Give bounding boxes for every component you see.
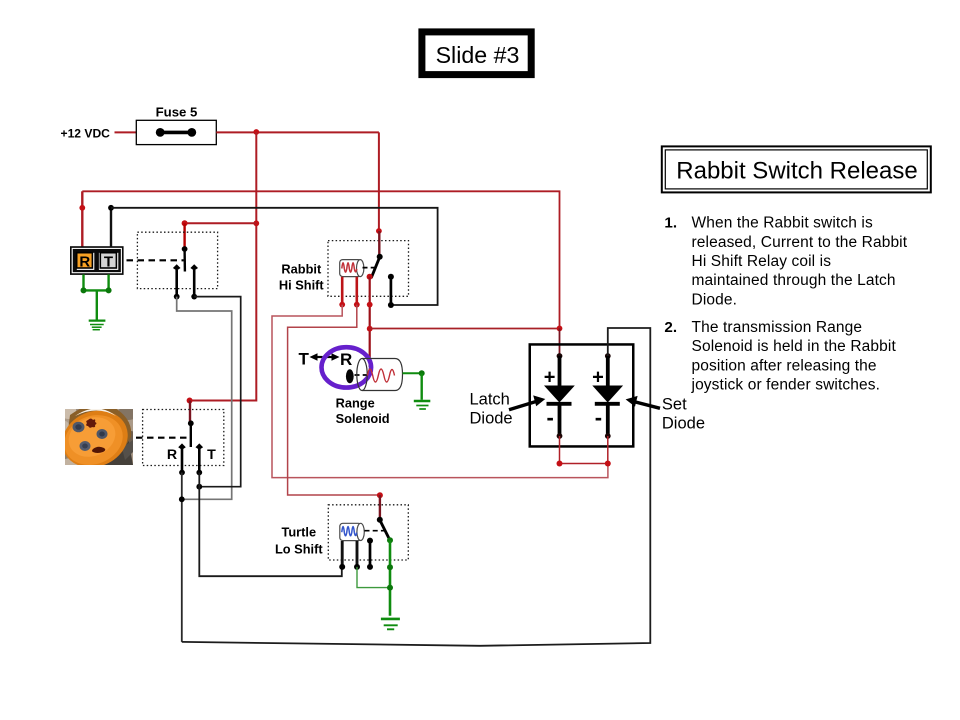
- node junction on fuse line: [253, 129, 259, 135]
- node rabbit feed: [376, 228, 382, 234]
- svg-text:R: R: [79, 254, 90, 271]
- svg-text:Lo Shift: Lo Shift: [275, 542, 323, 557]
- svg-text:Rabbit Switch Release: Rabbit Switch Release: [676, 158, 917, 185]
- svg-text:T: T: [207, 447, 216, 463]
- svg-text:Solenoid is held in the Rabbit: Solenoid is held in the Rabbit: [692, 338, 897, 355]
- svg-text:Diode: Diode: [470, 410, 513, 428]
- node turtle green mid: [387, 564, 393, 570]
- numbered note 1: [664, 215, 907, 309]
- wire vertical drop x=379 to rabbit relay: [378, 132, 380, 231]
- node set bottom: [605, 461, 611, 467]
- title box Slide #3: [422, 32, 531, 75]
- wire turtle pin B to common green thin: [357, 567, 390, 588]
- turtle relay mech dashes: [365, 530, 387, 532]
- svg-text:Latch: Latch: [470, 391, 510, 409]
- fuse element: [156, 128, 196, 137]
- wire green R button to ground: [81, 274, 112, 319]
- node junction x256 y223: [253, 220, 259, 226]
- solenoid plunger dash: [355, 374, 367, 376]
- wire fender switch feed drop: [187, 398, 193, 404]
- wire fender T contact to turtle coil: [199, 473, 341, 577]
- node joystick feed: [182, 220, 188, 226]
- node pin B: [354, 302, 360, 308]
- range solenoid purple ring: [322, 347, 372, 387]
- turtle coil pin A wire: [341, 541, 344, 567]
- diode box: [530, 344, 634, 446]
- fender switch dashed box: [143, 410, 224, 466]
- fender mechanical dashed link: [136, 437, 188, 439]
- svg-text:When the Rabbit switch is: When the Rabbit switch is: [692, 215, 873, 232]
- svg-text:Diode.: Diode.: [692, 291, 738, 308]
- rabbit relay mech dashes: [363, 267, 378, 269]
- node turtle arm contact green: [387, 537, 393, 543]
- node turtle feed: [377, 492, 383, 498]
- wire turtle common to ground: [389, 540, 392, 616]
- turtle relay dashed box: [328, 505, 408, 560]
- node latch diode drop: [557, 326, 563, 332]
- node R terminal feed: [79, 205, 85, 211]
- joystick switch pivot node: [182, 246, 188, 252]
- svg-text:T: T: [104, 254, 113, 271]
- svg-text:T: T: [299, 350, 310, 369]
- set diode D2: [592, 353, 623, 439]
- turtle coil pin B wire: [356, 541, 359, 567]
- svg-text:R: R: [167, 447, 177, 463]
- node turtle pin B: [354, 564, 360, 570]
- ground symbol turtle: [381, 619, 400, 629]
- turtle relay coil cylinder: [340, 523, 365, 540]
- svg-text:Set: Set: [662, 395, 687, 413]
- svg-text:Fuse 5: Fuse 5: [156, 105, 198, 120]
- label T-R with arrows: [299, 350, 353, 370]
- wire black bus y=208 to rabbit relay NO contact: [111, 208, 438, 305]
- wire rabbit coil pin A: [341, 277, 344, 305]
- wire main vertical x=256: [190, 132, 257, 401]
- wire black link joystick T contact to fender T line: [194, 297, 241, 487]
- wire rabbit pivot feed: [378, 231, 380, 257]
- wire fender R contact down to bottom bus: [181, 473, 183, 642]
- wire latch diode top feed: [559, 328, 561, 356]
- wire rabbit common down to solenoid: [369, 277, 371, 367]
- turtle relay pivot node: [377, 517, 383, 523]
- wire gray link joystick R contact to fender R line: [177, 297, 232, 500]
- title box Rabbit Switch Release: [662, 146, 931, 192]
- svg-text:+: +: [592, 367, 604, 389]
- wire pin B to turtle feed: [288, 305, 380, 495]
- wire +12VDC feed to fuse: [115, 131, 137, 133]
- fender contact T: [196, 443, 204, 475]
- node solenoid tap: [367, 326, 373, 332]
- joystick switch dashed box: [137, 232, 217, 288]
- joystick contact R: [173, 264, 181, 299]
- joystick switch arm: [183, 250, 186, 272]
- svg-text:+: +: [544, 367, 556, 389]
- wire solenoid to ground green: [403, 370, 425, 400]
- svg-text:joystick or fender switches.: joystick or fender switches.: [691, 377, 881, 394]
- latch diode D1: [544, 353, 575, 439]
- svg-text:Range: Range: [336, 396, 375, 411]
- svg-text:maintained through the Latch: maintained through the Latch: [692, 272, 896, 289]
- fender switch photo: [54, 401, 138, 477]
- svg-text:Solenoid: Solenoid: [336, 411, 390, 426]
- svg-text:released, Current to the Rabbi: released, Current to the Rabbit: [692, 234, 908, 251]
- wire rabbit coil pin B: [355, 277, 358, 305]
- node turtle green lower: [387, 585, 393, 591]
- arrow latch diode: [509, 395, 545, 409]
- svg-text:Slide #3: Slide #3: [436, 42, 520, 68]
- wire joystick switch feed horizontal: [185, 222, 257, 224]
- svg-text:position after releasing the: position after releasing the: [692, 357, 877, 374]
- svg-text:+12 VDC: +12 VDC: [61, 127, 111, 141]
- wire diode bottom links red: [560, 436, 608, 464]
- node common: [367, 302, 373, 308]
- node T terminal: [108, 205, 114, 211]
- svg-text:Diode: Diode: [662, 414, 705, 432]
- numbered note 2: [664, 319, 896, 394]
- wire drop to R terminal: [81, 191, 83, 247]
- rabbit relay pivot node: [377, 254, 383, 260]
- range solenoid cylinder: [357, 359, 403, 391]
- svg-text:-: -: [547, 405, 554, 430]
- node fender T black junction: [196, 484, 202, 490]
- wire fuse output to rabbit relay feed corner: [216, 131, 379, 133]
- rabbit relay switch arm: [371, 257, 380, 278]
- node fender R gray junction: [179, 496, 185, 502]
- svg-text:Turtle: Turtle: [281, 524, 316, 539]
- fender switch pivot node: [188, 420, 194, 426]
- svg-text:1.: 1.: [664, 215, 677, 232]
- wire black loop set diode to bottom rail: [182, 328, 651, 646]
- turtle relay NC contact: [367, 538, 373, 570]
- wire pin A to bottom red bus: [272, 305, 608, 478]
- rabbit relay coil cylinder: [340, 260, 364, 277]
- node rabbit arm contact: [367, 274, 373, 280]
- svg-text:Hi Shift: Hi Shift: [279, 278, 325, 293]
- fender switch arm: [190, 424, 192, 447]
- svg-text:-: -: [595, 405, 602, 430]
- turtle relay switch arm: [380, 520, 390, 540]
- wire latch diode feed horizontal y=328.5: [370, 328, 560, 330]
- svg-text:R: R: [340, 350, 352, 369]
- svg-text:Hi Shift Relay coil is: Hi Shift Relay coil is: [692, 253, 832, 270]
- joystick mechanical dashed link: [127, 259, 184, 261]
- wire turtle pivot feed: [379, 495, 381, 520]
- joystick contact T: [190, 264, 198, 299]
- fuse F5 box: [136, 120, 216, 144]
- fender contact R: [178, 443, 186, 475]
- solenoid plunger dot: [346, 369, 354, 383]
- ground symbol solenoid: [414, 401, 431, 409]
- svg-text:Rabbit: Rabbit: [281, 261, 322, 276]
- wire black T terminal drop: [110, 208, 112, 248]
- svg-text:2.: 2.: [664, 319, 677, 336]
- node turtle pin A: [339, 564, 345, 570]
- wire long red bus y=191: [82, 191, 559, 328]
- node latch bottom: [557, 461, 563, 467]
- node pin A: [339, 302, 345, 308]
- ground symbol R/T switch: [89, 321, 106, 330]
- rabbit relay dashed box: [328, 241, 409, 297]
- rabbit relay NO contact: [388, 274, 394, 308]
- wire joystick feed drop: [183, 223, 185, 249]
- svg-text:The transmission Range: The transmission Range: [692, 319, 863, 336]
- R/T rocker switch unit: [70, 246, 124, 275]
- arrow set diode: [626, 396, 660, 408]
